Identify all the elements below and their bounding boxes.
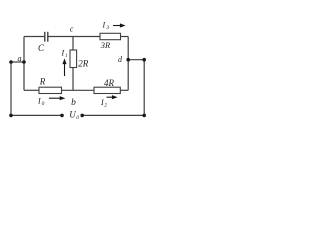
svg-text:I: I bbox=[37, 97, 41, 106]
svg-text:b: b bbox=[71, 98, 76, 108]
svg-text:I: I bbox=[61, 49, 65, 58]
svg-text:I: I bbox=[100, 98, 104, 107]
svg-text:a: a bbox=[18, 54, 22, 63]
svg-text:c: c bbox=[70, 24, 74, 33]
svg-text:0: 0 bbox=[42, 101, 45, 107]
svg-text:I: I bbox=[102, 21, 106, 30]
svg-text:0: 0 bbox=[76, 115, 79, 121]
svg-text:2R: 2R bbox=[78, 58, 89, 68]
svg-text:C: C bbox=[38, 43, 45, 53]
svg-text:4R: 4R bbox=[104, 78, 115, 88]
svg-text:1: 1 bbox=[65, 54, 68, 59]
svg-text:2: 2 bbox=[104, 102, 107, 108]
svg-text:3: 3 bbox=[105, 25, 109, 31]
svg-text:R: R bbox=[39, 76, 46, 86]
svg-text:3R: 3R bbox=[100, 40, 111, 50]
